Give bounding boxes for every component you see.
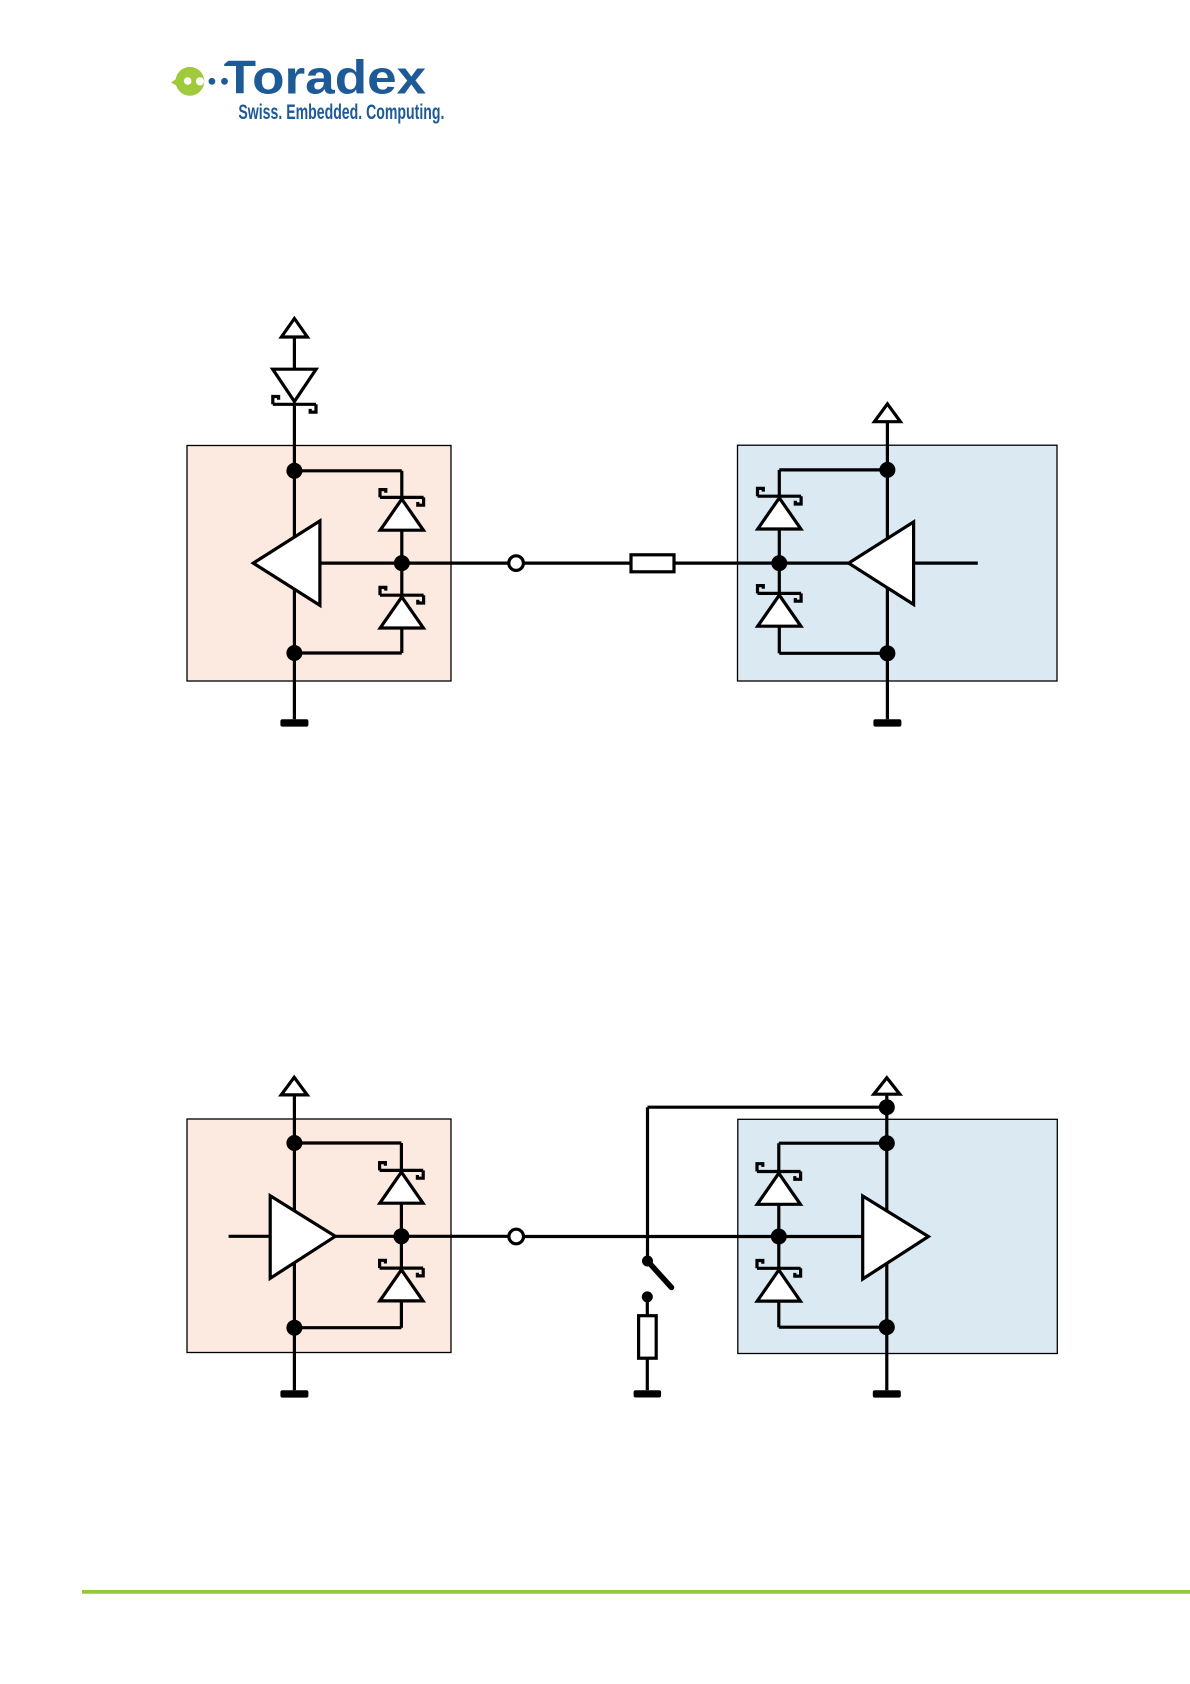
junction node bottom-right (schematic 1) <box>879 645 895 661</box>
wire: left VCC rail vertical (schematic 1) <box>293 337 296 369</box>
junction node top-right (schematic 1) <box>879 462 895 478</box>
wire: zener string vertical (schematic 2 right) <box>777 1143 780 1327</box>
wire: resistor to right box mid node (schematic 1) <box>674 561 779 564</box>
ground symbol left (schematic 2) <box>280 1390 308 1397</box>
zener diode Z8 (schematic 2 right bottom) <box>757 1261 801 1302</box>
op-amp buffer U1 (schematic 1 left, pointing left) <box>253 521 320 605</box>
SoC box left (schematic 2) <box>187 1119 451 1353</box>
wire: signal from left box to open circle (schematic 2) <box>330 1235 508 1238</box>
junction node top-left (schematic 1) <box>286 463 302 479</box>
VCC symbol left (schematic 2) <box>281 1077 307 1095</box>
zener diode Z4 (schematic 1 right bottom) <box>758 586 802 627</box>
wire: zener string vertical (schematic 1 right) <box>778 470 781 653</box>
junction node bottom-right (schematic 2) <box>879 1319 895 1335</box>
wire: mid node to amp input (schematic 1 right) <box>779 561 860 564</box>
zener diode Z5 (schematic 2 left top) <box>380 1163 424 1204</box>
wire: bottom dot to zener string (schematic 2 right) <box>779 1326 887 1329</box>
wire: top dot to zener string (schematic 2 left) <box>294 1141 401 1144</box>
SoC box left (schematic 1) <box>187 446 451 682</box>
logo eye right <box>196 77 204 85</box>
wire: bottom dot to zener string (schematic 1 right) <box>779 652 887 655</box>
TVS zener diode D1 (schematic 1 left, pointing down) <box>273 369 316 412</box>
resistor R1 (schematic 1, series) <box>631 555 674 572</box>
wire: resistor to ground (schematic 2) <box>646 1358 649 1390</box>
op-amp buffer U3 (schematic 2 left, pointing right) <box>270 1196 335 1279</box>
zener diode Z6 (schematic 2 left bottom) <box>380 1260 424 1301</box>
wire: top dot to zener string (schematic 1 left) <box>294 469 401 472</box>
junction node mid-right (schematic 2) <box>771 1229 787 1245</box>
zener diode Z3 (schematic 1 right top) <box>758 488 802 529</box>
op-amp buffer U2 (schematic 1 right, pointing left) <box>849 522 914 605</box>
junction node top-right (schematic 2) <box>879 1135 895 1151</box>
wire: open circle to resistor (schematic 1) <box>525 561 631 564</box>
wire: signal from left box to open circle (schematic 1) <box>300 561 508 564</box>
op-amp buffer U4 (schematic 2 right, pointing right) <box>863 1196 929 1279</box>
peripheral box right (schematic 1) <box>738 445 1058 681</box>
wire: left supply vertical through box to GND (schematic 1) <box>293 404 296 719</box>
wire: left supply vertical through box to GND (schematic 2) <box>293 1095 296 1390</box>
wire: VCC node to switch horizontal (schematic 2) <box>648 1106 887 1109</box>
junction node VCC right (schematic 2) <box>879 1099 895 1115</box>
logo eye left <box>184 77 192 85</box>
peripheral box right (schematic 2) <box>738 1119 1058 1353</box>
ground symbol right (schematic 2) <box>873 1390 901 1397</box>
wire: open circle to right box mid node (schematic 2) <box>525 1235 870 1238</box>
resistor R2 (schematic 2, pull resistor) <box>639 1316 657 1359</box>
ground symbol right (schematic 1) <box>873 719 901 726</box>
svg-text:Toradex: Toradex <box>224 50 427 103</box>
wire: switch contact to resistor (schematic 2) <box>646 1297 649 1316</box>
wire: top dot to zener string (schematic 1 right) <box>779 468 887 471</box>
svg-text:Swiss. Embedded. Computing.: Swiss. Embedded. Computing. <box>238 100 444 124</box>
switch pivot node (schematic 2) <box>642 1256 653 1267</box>
junction node mid-left (schematic 2) <box>393 1228 409 1244</box>
VCC symbol right (schematic 2) <box>874 1078 900 1095</box>
ground symbol switch resistor (schematic 2) <box>634 1390 662 1397</box>
zener diode Z2 (schematic 1 left bottom) <box>380 587 424 628</box>
wire: zener string vertical (schematic 2 left) <box>400 1143 403 1328</box>
logo dot 2 <box>221 78 228 85</box>
wire: right supply vertical through box to GND (schematic 2) <box>885 1094 888 1390</box>
junction node bottom-left (schematic 2) <box>286 1320 302 1336</box>
VCC symbol left (schematic 1) <box>281 319 307 338</box>
VCC symbol right (schematic 1) <box>874 404 900 422</box>
switch contact node (schematic 2) <box>642 1291 653 1302</box>
wire: amp input stub (schematic 2 left) <box>229 1235 271 1238</box>
junction node top-left (schematic 2) <box>286 1135 302 1151</box>
node: open circle connector (schematic 2) <box>509 1229 524 1244</box>
wire: right supply vertical through box to GND (schematic 1) <box>886 422 889 720</box>
wire: amp input stub (schematic 1 right) <box>914 561 978 564</box>
zener diode Z1 (schematic 1 left top) <box>380 490 424 531</box>
wire: zener string vertical (schematic 1 left) <box>400 471 403 653</box>
footer green rule <box>82 1590 1190 1594</box>
switch blade (schematic 2) <box>648 1261 672 1288</box>
node: open circle connector (schematic 1) <box>509 556 524 571</box>
junction node mid-right (schematic 1) <box>771 555 787 571</box>
junction node mid-left (schematic 1) <box>394 555 410 571</box>
Toradex logo gecko head <box>171 74 184 90</box>
junction node bottom-left (schematic 1) <box>286 645 302 661</box>
ground symbol left (schematic 1) <box>280 719 308 726</box>
wire: switch vertical drop (schematic 2) <box>646 1107 649 1261</box>
zener diode Z7 (schematic 2 right top) <box>757 1164 801 1205</box>
wire: bottom dot to zener string (schematic 1 left) <box>294 651 401 654</box>
wire: bottom dot to zener string (schematic 2 left) <box>294 1326 401 1329</box>
wire: top dot to zener string (schematic 2 right) <box>779 1142 887 1145</box>
logo dot 1 <box>209 78 216 85</box>
